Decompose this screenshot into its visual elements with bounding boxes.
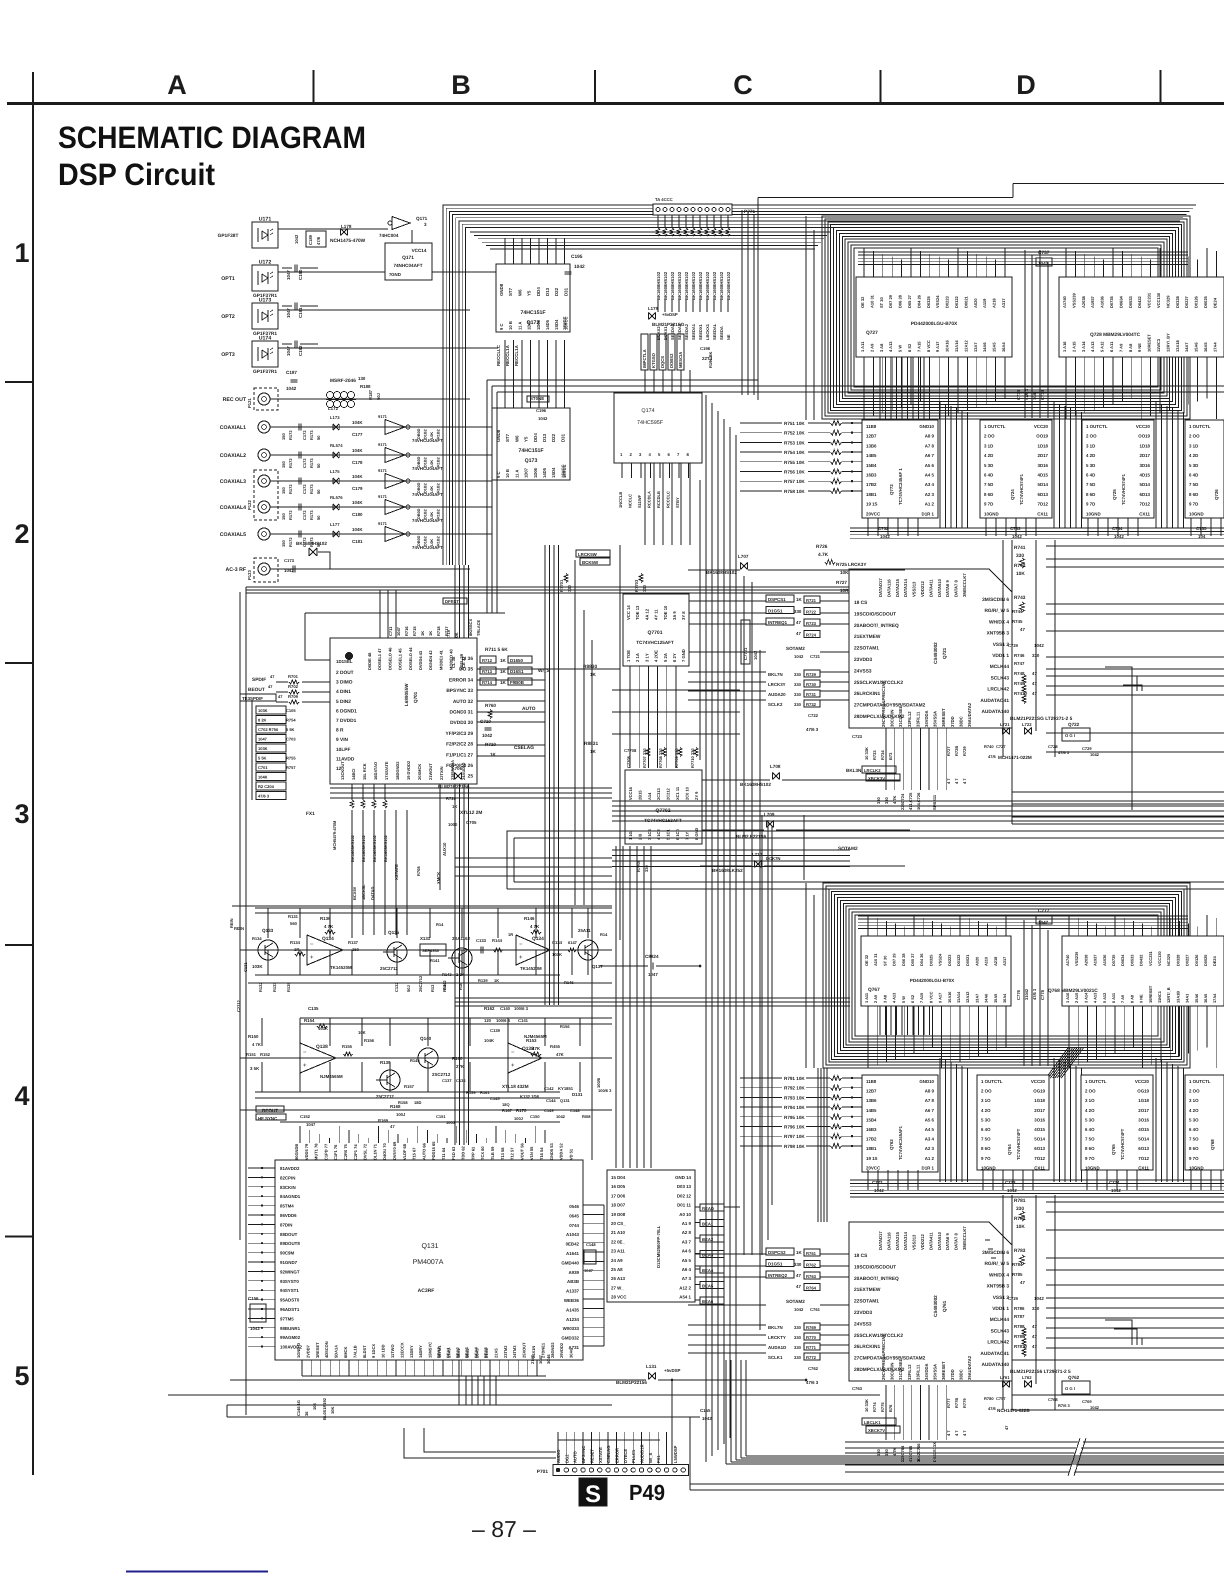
- svg-text:3 DIMO: 3 DIMO: [336, 680, 353, 686]
- svg-text:Q138: Q138: [316, 1044, 328, 1050]
- svg-text:R160: R160: [452, 1056, 463, 1061]
- svg-text:COAXIAL2: COAXIAL2: [220, 453, 246, 459]
- svg-text:NCH1475-470W: NCH1475-470W: [330, 238, 366, 244]
- svg-text:31042: 31042: [1024, 988, 1029, 1000]
- svg-text:47: 47: [1032, 671, 1037, 676]
- svg-text:8K/SSCX: 8K/SSCX: [468, 619, 473, 636]
- svg-text:XSTATE: XSTATE: [598, 1447, 603, 1463]
- svg-text:R741: R741: [1014, 545, 1026, 551]
- svg-text:D0328: D0328: [1175, 295, 1180, 308]
- svg-text:R173: R173: [309, 484, 314, 494]
- svg-text:R747: R747: [1014, 661, 1025, 666]
- svg-text:23VDD3: 23VDD3: [854, 1310, 872, 1316]
- svg-text:2C313: 2C313: [656, 787, 661, 800]
- svg-text:AB3B: AB3B: [567, 1279, 579, 1284]
- svg-text:6 A11: 6 A11: [1109, 341, 1114, 352]
- svg-text:104K: 104K: [352, 448, 363, 453]
- svg-text:D0122: D0122: [954, 295, 959, 308]
- svg-text:A7 8: A7 8: [925, 1098, 935, 1103]
- svg-text:F9B0B: F9B0B: [510, 680, 524, 685]
- svg-text:BK1608HS102: BK1608HS102: [719, 271, 724, 300]
- svg-text:560: 560: [290, 921, 298, 926]
- svg-text:D0325: D0325: [928, 954, 933, 966]
- svg-text:D0021: D0021: [963, 295, 968, 308]
- svg-text:100J: 100J: [446, 1120, 455, 1125]
- svg-text:P123: P123: [247, 570, 252, 580]
- svg-text:15 D04: 15 D04: [611, 1175, 626, 1180]
- svg-text:R717: R717: [444, 626, 449, 636]
- svg-text:D1R 1: D1R 1: [922, 1165, 935, 1170]
- svg-text:74HC004: 74HC004: [379, 233, 399, 238]
- svg-text:1K: 1K: [500, 680, 507, 685]
- svg-text:R172: R172: [288, 430, 293, 440]
- svg-text:ZY 9: ZY 9: [694, 791, 699, 800]
- svg-text:A6 7: A6 7: [925, 453, 935, 458]
- svg-text:BEOUT: BEOUT: [248, 687, 265, 693]
- svg-text:47/6: 47/6: [988, 754, 997, 759]
- svg-text:TPP 61: TPP 61: [470, 1146, 475, 1160]
- svg-text:16A4: 16A4: [1001, 342, 1006, 352]
- svg-text:OPT3: OPT3: [221, 352, 235, 358]
- svg-text:LRCK3Y: LRCK3Y: [768, 682, 786, 687]
- svg-text:TOE 10: TOE 10: [663, 605, 668, 620]
- svg-text:3D16: 3D16: [1140, 463, 1151, 468]
- svg-text:A7 8: A7 8: [925, 443, 935, 448]
- svg-text:BCK5W: BCK5W: [582, 560, 599, 565]
- svg-text:31CLKSEL: 31CLKSEL: [898, 705, 903, 727]
- svg-text:47: 47: [1032, 691, 1037, 696]
- svg-text:7D12: 7D12: [1038, 502, 1049, 507]
- svg-text:1D18: 1D18: [1038, 443, 1049, 448]
- svg-text:Q768 MBM29LV0021C: Q768 MBM29LV0021C: [1048, 988, 1098, 994]
- svg-text:471C765: 471C765: [908, 1445, 913, 1462]
- svg-text:R797 10K: R797 10K: [784, 1134, 805, 1139]
- svg-text:R775: R775: [880, 1402, 885, 1412]
- svg-text:R13: R13: [430, 984, 435, 992]
- svg-text:R718: R718: [436, 626, 441, 636]
- svg-text:A1740: A1740: [1065, 955, 1070, 966]
- svg-text:Q728 MBM29LV004TC: Q728 MBM29LV004TC: [1090, 332, 1141, 338]
- svg-text:1D07: 1D07: [527, 319, 532, 330]
- svg-text:BK1608HS102: BK1608HS102: [663, 271, 668, 300]
- svg-text:R145: R145: [564, 980, 574, 985]
- svg-text:R139: R139: [380, 1060, 391, 1065]
- svg-text:D22: D22: [551, 433, 556, 442]
- svg-text:15B4: 15B4: [866, 463, 877, 468]
- svg-text:1047: 1047: [648, 972, 658, 977]
- svg-text:8 6O: 8 6O: [1085, 1146, 1095, 1151]
- svg-text:GND5 53: GND5 53: [549, 1143, 554, 1160]
- svg-text:74HC151F: 74HC151F: [518, 448, 543, 454]
- svg-text:DATA510: DATA510: [937, 578, 942, 597]
- svg-text:4 7: 4 7: [954, 1430, 959, 1436]
- svg-text:C190: C190: [298, 269, 303, 280]
- svg-text:A1641: A1641: [566, 1251, 579, 1256]
- svg-text:47: 47: [268, 684, 273, 689]
- svg-text:L762: L762: [1022, 1375, 1032, 1380]
- svg-text:3 1Y: 3 1Y: [644, 653, 649, 662]
- svg-text:1042: 1042: [250, 1326, 260, 1331]
- svg-text:5 5K: 5 5K: [286, 727, 295, 732]
- svg-text:BKL7N: BKL7N: [768, 1325, 783, 1330]
- svg-text:D0432: D0432: [1137, 295, 1142, 308]
- svg-text:DVSL 72: DVSL 72: [363, 1143, 368, 1160]
- svg-text:30CLKIN: 30CLKIN: [890, 710, 895, 727]
- svg-text:7 5D: 7 5D: [984, 482, 993, 487]
- svg-text:BK1608HS102: BK1608HS102: [705, 271, 710, 300]
- svg-text:VSS24: VSS24: [938, 953, 943, 966]
- svg-text:1NCCLB: 1NCCLB: [618, 492, 623, 508]
- svg-text:1R: 1R: [508, 932, 513, 937]
- svg-text:6 4D: 6 4D: [1086, 473, 1095, 478]
- svg-text:R136: R136: [320, 916, 331, 921]
- svg-text:DATAD17: DATAD17: [878, 578, 883, 597]
- svg-text:36: 36: [304, 1411, 309, 1416]
- svg-text:0645: 0645: [569, 1213, 579, 1218]
- svg-text:CS493002: CS493002: [933, 642, 938, 664]
- svg-text:BK1608HS102: BK1608HS102: [691, 271, 696, 300]
- svg-text:R731: R731: [806, 692, 817, 697]
- svg-text:9 VIN: 9 VIN: [336, 737, 349, 743]
- svg-text:TA 4CCC: TA 4CCC: [655, 197, 673, 202]
- svg-text:TC74VHC125AFT: TC74VHC125AFT: [636, 640, 674, 645]
- svg-text:GP1F38T: GP1F38T: [218, 233, 239, 239]
- svg-text:OG19: OG19: [1033, 1089, 1045, 1094]
- svg-text:A020: A020: [973, 298, 978, 308]
- svg-text:9 7O: 9 7O: [1085, 1156, 1095, 1161]
- svg-text:Q722: Q722: [1068, 722, 1080, 727]
- svg-text:104K: 104K: [352, 500, 363, 505]
- svg-text:9 NE: 9 NE: [1139, 994, 1144, 1003]
- svg-text:OE 32: OE 32: [864, 954, 869, 966]
- svg-text:8 VCC: 8 VCC: [928, 991, 933, 1003]
- svg-text:BPSYNC: BPSYNC: [581, 1446, 586, 1463]
- svg-text:2 OO: 2 OO: [984, 434, 995, 439]
- svg-text:19 1S: 19 1S: [866, 502, 878, 507]
- svg-text:14A7: 14A7: [1184, 342, 1189, 352]
- svg-text:R0M: R0M: [582, 1114, 591, 1119]
- svg-text:32FIL12: 32FIL12: [907, 1364, 912, 1380]
- svg-text:23VDD3: 23VDD3: [854, 657, 872, 663]
- svg-text:10K: 10K: [1016, 571, 1025, 577]
- svg-text:READ: READ: [702, 1206, 714, 1211]
- svg-text:Q701: Q701: [413, 691, 418, 703]
- svg-text:5 2A: 5 2A: [663, 653, 668, 662]
- svg-text:VD 51: VD 51: [568, 1148, 573, 1160]
- svg-text:18 D07: 18 D07: [611, 1203, 626, 1208]
- svg-text:R141: R141: [430, 958, 440, 963]
- svg-text:OPT1: OPT1: [221, 276, 235, 282]
- svg-text:VCC20: VCC20: [1136, 424, 1151, 429]
- svg-text:27CMPDATA&DY95B/SDATAM2: 27CMPDATA&DY95B/SDATAM2: [854, 703, 926, 709]
- svg-text:22SOTAM1: 22SOTAM1: [854, 646, 879, 652]
- svg-text:5: 5: [14, 1361, 29, 1391]
- svg-text:7 DVDD1: 7 DVDD1: [336, 718, 357, 724]
- svg-text:+: +: [310, 955, 314, 961]
- svg-text:A3 4: A3 4: [925, 482, 935, 487]
- svg-text:11AVDD: 11AVDD: [336, 756, 355, 762]
- svg-text:CX11: CX11: [1139, 511, 1150, 516]
- svg-text:74VHCU04AFT: 74VHCU04AFT: [412, 518, 443, 523]
- svg-text:A1435: A1435: [566, 1307, 579, 1312]
- svg-text:R787: R787: [1014, 1314, 1025, 1319]
- svg-text:R755 10K: R755 10K: [784, 460, 805, 465]
- svg-text:CE 37: CE 37: [461, 656, 466, 668]
- svg-text:6 4O: 6 4O: [1189, 1127, 1199, 1132]
- svg-text:MCLK44: MCLK44: [990, 664, 1010, 670]
- svg-text:2C0 10: 2C0 10: [684, 786, 689, 800]
- svg-text:3 1O: 3 1O: [1189, 1098, 1199, 1103]
- svg-text:Q140: Q140: [420, 1036, 432, 1041]
- svg-text:RCCDLB: RCCDLB: [656, 491, 661, 508]
- svg-text:3D16: 3D16: [1038, 463, 1049, 468]
- svg-text:A1 2: A1 2: [925, 502, 935, 507]
- svg-text:8 6D: 8 6D: [1086, 492, 1095, 497]
- svg-text:A020: A020: [974, 957, 979, 966]
- svg-text:REIN: REIN: [234, 926, 244, 931]
- svg-text:R187: R187: [368, 389, 373, 400]
- svg-text:6MCK: 6MCK: [343, 1347, 348, 1358]
- svg-text:22TXIN: 22TXIN: [439, 766, 444, 780]
- svg-text:R784: R784: [1012, 1262, 1023, 1267]
- svg-text:DATA116: DATA116: [886, 1232, 891, 1250]
- svg-text:18D: 18D: [414, 1100, 421, 1105]
- svg-text:Q171: Q171: [416, 216, 428, 221]
- svg-text:C736: C736: [1016, 389, 1021, 400]
- svg-text:A5 6: A5 6: [925, 463, 935, 468]
- svg-text:BEA0: BEA0: [436, 1347, 441, 1358]
- svg-text:GMD440: GMD440: [561, 1260, 579, 1265]
- svg-text:C135: C135: [308, 1006, 319, 1011]
- svg-text:D: D: [1016, 70, 1036, 100]
- svg-text:82CPIN: 82CPIN: [280, 1175, 295, 1180]
- svg-text:5 W: 5 W: [901, 996, 906, 1003]
- svg-text:47: 47: [1032, 1334, 1037, 1339]
- svg-text:D0126: D0126: [1194, 295, 1199, 308]
- svg-text:0744: 0744: [569, 1223, 579, 1228]
- svg-text:39AUDATA2: 39AUDATA2: [967, 1355, 972, 1380]
- svg-text:11TWO: 11TWO: [390, 1344, 395, 1358]
- svg-text:A1234: A1234: [566, 1317, 579, 1322]
- svg-text:BEA3: BEA3: [464, 1347, 469, 1358]
- svg-text:C1PD 77: C1PD 77: [323, 1143, 328, 1160]
- svg-text:17XS/ATE: 17XS/ATE: [384, 761, 389, 780]
- svg-text:12B7: 12B7: [866, 1089, 877, 1094]
- svg-text:26LRCKIN1: 26LRCKIN1: [854, 691, 880, 697]
- svg-text:A218: A218: [992, 298, 997, 308]
- svg-text:W6: W6: [517, 289, 522, 296]
- svg-text:DOSEL1 45: DOSEL1 45: [398, 648, 403, 670]
- svg-text:2 A15: 2 A15: [1074, 992, 1079, 1003]
- svg-text:5 3D: 5 3D: [1086, 463, 1095, 468]
- svg-text:R161: R161: [480, 1090, 490, 1095]
- svg-text:C152: C152: [300, 1114, 311, 1119]
- svg-text:330: 330: [644, 865, 649, 872]
- svg-text:C105: C105: [286, 708, 296, 713]
- svg-text:R709: R709: [288, 694, 299, 699]
- svg-text:Q7701: Q7701: [647, 630, 662, 636]
- svg-text:OE 32: OE 32: [860, 296, 865, 308]
- svg-text:IMPCTLA: IMPCTLA: [642, 349, 647, 368]
- svg-text:WH/DX 4: WH/DX 4: [989, 619, 1009, 625]
- svg-text:A6 4: A6 4: [682, 1267, 692, 1272]
- svg-text:A1740: A1740: [1062, 295, 1067, 308]
- svg-text:D0432: D0432: [1139, 954, 1144, 966]
- svg-text:92WINGT: 92WINGT: [280, 1269, 300, 1274]
- svg-text:DATA6 9: DATA6 9: [945, 579, 950, 597]
- svg-text:BK1608HS102: BK1608HS102: [383, 834, 388, 862]
- svg-text:R16: R16: [458, 982, 463, 990]
- svg-text:18 CS: 18 CS: [854, 600, 868, 606]
- svg-text:Q761: Q761: [942, 1300, 947, 1312]
- svg-text:4 7K: 4 7K: [324, 924, 334, 929]
- svg-text:100/6 3: 100/6 3: [496, 1018, 511, 1023]
- svg-text:C172: C172: [302, 458, 307, 468]
- svg-text:R732: R732: [806, 702, 817, 707]
- svg-text:7 A15: 7 A15: [919, 992, 924, 1003]
- svg-text:150: 150: [281, 513, 286, 520]
- svg-text:7 A15: 7 A15: [916, 341, 921, 352]
- svg-text:D0533: D0533: [1128, 295, 1133, 308]
- svg-text:27K: 27K: [456, 1064, 465, 1069]
- svg-text:C137: C137: [442, 1078, 452, 1083]
- svg-text:1047: 1047: [584, 1268, 594, 1273]
- svg-text:NC329: NC329: [1166, 953, 1171, 966]
- svg-text:74VHCU04AFT: 74VHCU04AFT: [412, 466, 443, 471]
- svg-text:GND: GND: [391, 272, 401, 277]
- svg-text:R712: R712: [482, 658, 493, 663]
- svg-text:R77B: R77B: [954, 1398, 959, 1408]
- svg-text:1042: 1042: [1038, 261, 1049, 266]
- svg-text:−: −: [310, 942, 314, 948]
- svg-text:R134: R134: [290, 940, 301, 945]
- svg-text:R795 10K: R795 10K: [784, 1115, 805, 1120]
- svg-text:2 1A: 2 1A: [635, 653, 640, 662]
- svg-text:B76: B76: [888, 1404, 893, 1412]
- svg-text:R173: R173: [309, 458, 314, 468]
- svg-text:SCLK2: SCLK2: [768, 702, 783, 707]
- svg-text:14B5: 14B5: [866, 453, 877, 458]
- svg-text:47: 47: [1020, 627, 1025, 632]
- svg-text:15MSYC: 15MSYC: [428, 1342, 433, 1358]
- svg-text:2O17: 2O17: [1034, 1108, 1045, 1113]
- svg-text:4A 12: 4A 12: [644, 608, 649, 620]
- svg-text:11B8: 11B8: [866, 424, 877, 429]
- svg-text:BK1608HS102: BK1608HS102: [684, 271, 689, 300]
- svg-text:C146 1G: C146 1G: [296, 1400, 301, 1416]
- svg-text:9 A17: 9 A17: [938, 993, 943, 1003]
- svg-text:47/6: 47/6: [988, 1406, 997, 1411]
- svg-text:100/6: 100/6: [596, 1077, 601, 1088]
- svg-text:TC74VHC574FT: TC74VHC574FT: [1120, 1128, 1125, 1160]
- svg-text:1042: 1042: [1034, 1296, 1044, 1301]
- svg-text:C738: C738: [1040, 389, 1045, 400]
- svg-text:330: 330: [794, 682, 802, 687]
- svg-text:9 7D: 9 7D: [1189, 502, 1198, 507]
- svg-text:YF/P3/C3 29: YF/P3/C3 29: [446, 731, 474, 737]
- svg-text:XBCK7V: XBCK7V: [868, 1428, 885, 1433]
- svg-text:SOTAM2: SOTAM2: [786, 646, 805, 651]
- svg-text:CS493002: CS493002: [933, 1295, 938, 1317]
- svg-text:1047: 1047: [396, 626, 401, 636]
- svg-text:14D5: 14D5: [542, 467, 547, 478]
- svg-text:6 2Y: 6 2Y: [672, 653, 677, 662]
- svg-text:Q134: Q134: [532, 936, 544, 942]
- svg-text:50J: 50J: [406, 985, 411, 992]
- svg-text:C7708: C7708: [626, 755, 631, 768]
- svg-text:R757 10K: R757 10K: [784, 479, 805, 484]
- svg-text:RECCLLC: RECCLLC: [496, 344, 501, 366]
- svg-text:DE24: DE24: [1212, 297, 1217, 308]
- svg-text:16VCC: 16VCC: [562, 317, 567, 331]
- svg-text:A1 9: A1 9: [682, 1221, 692, 1226]
- svg-text:3M/SCDIN 6: 3M/SCDIN 6: [982, 1250, 1009, 1256]
- svg-text:11 A: 11 A: [517, 322, 522, 330]
- svg-text:GND10: GND10: [919, 424, 934, 429]
- svg-text:OO19: OO19: [1036, 434, 1048, 439]
- svg-text:28 VCC: 28 VCC: [611, 1295, 627, 1300]
- svg-text:3A 9: 3A 9: [672, 611, 677, 620]
- svg-text:6 4D: 6 4D: [984, 473, 993, 478]
- svg-text:27CMPDATA&DY95B/SDATAM2: 27CMPDATA&DY95B/SDATAM2: [854, 1356, 926, 1362]
- svg-text:25: 25: [468, 774, 474, 780]
- svg-text:R172: R172: [288, 537, 293, 547]
- svg-text:47/6 3: 47/6 3: [806, 1380, 819, 1385]
- svg-text:BCX5V: BCX5V: [352, 886, 357, 900]
- svg-text:8 A8: 8 A8: [1128, 343, 1133, 352]
- svg-text:DFRST: DFRST: [445, 599, 459, 604]
- svg-text:C2712: C2712: [236, 999, 241, 1012]
- svg-text:Q767: Q767: [868, 987, 880, 993]
- svg-text:10 B: 10 B: [505, 469, 510, 478]
- svg-text:7 GND: 7 GND: [681, 649, 686, 662]
- svg-text:L722: L722: [1022, 722, 1032, 727]
- svg-text:AUTO 32: AUTO 32: [453, 699, 474, 705]
- svg-text:A12 2: A12 2: [679, 1285, 691, 1290]
- svg-text:AC3RF: AC3RF: [418, 1288, 435, 1294]
- svg-text:13A1B: 13A1B: [1175, 991, 1180, 1003]
- svg-text:1042: 1042: [538, 416, 548, 421]
- svg-text:2 A15: 2 A15: [1071, 341, 1076, 352]
- svg-text:TDD 62: TDD 62: [461, 1145, 466, 1160]
- svg-text:BEA3: BEA3: [702, 1253, 714, 1258]
- svg-text:A218: A218: [993, 956, 998, 966]
- svg-text:20VCC: 20VCC: [866, 1165, 881, 1170]
- svg-text:R791 10K: R791 10K: [784, 1076, 805, 1081]
- svg-text:D07 29: D07 29: [888, 294, 893, 308]
- svg-text:R722: R722: [806, 610, 817, 615]
- svg-text:14DRY: 14DRY: [418, 1345, 423, 1358]
- svg-text:R146: R146: [524, 916, 535, 921]
- svg-text:BK1608HS102: BK1608HS102: [350, 834, 355, 862]
- svg-text:P122: P122: [247, 500, 252, 510]
- svg-text:25A11: 25A11: [578, 928, 591, 933]
- svg-text:T13 58: T13 58: [500, 1147, 505, 1160]
- svg-text:C705: C705: [466, 820, 477, 825]
- svg-text:AUDIO: AUDIO: [556, 1449, 561, 1463]
- svg-text:R788: R788: [1014, 1324, 1025, 1329]
- svg-text:BKL3N: BKL3N: [846, 768, 862, 773]
- svg-text:104K: 104K: [258, 775, 268, 780]
- svg-text:R154: R154: [304, 1018, 315, 1023]
- svg-text:R729: R729: [962, 746, 967, 756]
- svg-text:R754 10K: R754 10K: [784, 450, 805, 455]
- svg-text:VSS313: VSS313: [912, 1234, 917, 1250]
- svg-text:10K: 10K: [1016, 1224, 1025, 1230]
- svg-text:RL574: RL574: [330, 443, 343, 448]
- svg-text:4 7K: 4 7K: [892, 795, 897, 804]
- svg-text:ERROR: ERROR: [614, 1448, 619, 1463]
